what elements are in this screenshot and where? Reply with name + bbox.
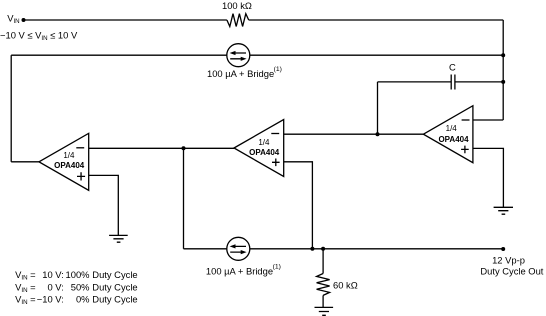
svg-text:VIN =: VIN = [15,269,36,282]
svg-text:Duty Cycle: Duty Cycle [92,293,137,304]
wire left feedback vertical x=11.2 [10,55,12,162]
op-amp U1A plus pin symbol [77,172,85,180]
junction dot cap-left node [376,132,380,136]
current source I1 arrowhead right [241,57,247,61]
svg-text:10 V:: 10 V: [42,269,64,280]
resistor R2 60k zigzag [317,274,330,296]
wire right opamp minus input [473,119,503,121]
junction dot R2 row3 [321,247,325,251]
svg-text:−10 V ≤ VIN ≤ 10 V: −10 V ≤ VIN ≤ 10 V [0,30,78,43]
svg-text:1/4: 1/4 [258,138,270,147]
op-amp U1A triangle [39,133,89,190]
svg-text:Duty Cycle Out: Duty Cycle Out [480,265,543,276]
svg-text:100%: 100% [66,269,90,280]
op-amp U1C minus pin symbol [462,119,470,121]
op-amp U1B minus pin symbol [271,133,279,135]
svg-text:(1): (1) [273,264,281,271]
svg-text:C: C [449,62,456,73]
op-amp U1A minus pin symbol [76,147,84,149]
current source I2 arrowhead left [230,244,236,248]
current source I2 circle [227,237,250,260]
current source I1 circle [227,44,250,67]
svg-text:0 V:: 0 V: [47,281,63,292]
current source I2 arrows [230,246,246,252]
svg-text:1/4: 1/4 [63,151,75,160]
resistor R1 zigzag [227,14,249,27]
junction dot right bus row2 [501,53,505,57]
svg-text:1/4: 1/4 [446,124,458,133]
wire row2 left segment [11,54,227,56]
wire cap-left vertical to node [377,82,379,134]
svg-text:VIN =: VIN = [15,293,36,306]
junction dot node A [182,146,186,150]
junction dot right bus cap [501,80,505,84]
wire U1A output [11,161,39,163]
wire 60k resistor top lead [322,249,324,274]
wire 60k resistor bottom lead [322,295,324,307]
wire right opamp plus input [473,148,504,207]
capacitor C right wire [455,81,503,83]
wire node A vertical x=183.5 [183,148,185,249]
svg-text:50%: 50% [71,281,90,292]
svg-text:VIN =: VIN = [15,281,36,294]
wire R1 to right bus [249,19,504,21]
op-amp U1C triangle [423,106,473,163]
svg-text:OPA404: OPA404 [438,135,469,144]
svg-text:100 µA + Bridge: 100 µA + Bridge [207,68,274,79]
ground G1 (U1A plus) [109,235,128,242]
wire VIN to R1 [24,19,227,21]
svg-text:OPA404: OPA404 [54,161,85,170]
node VIN terminal dot [22,18,26,22]
svg-text:Duty Cycle: Duty Cycle [92,281,137,292]
output terminal dot [501,247,505,251]
svg-text:0%: 0% [76,293,90,304]
wire U1B plus input [284,162,313,249]
current source I1 arrows [230,53,246,59]
svg-text:(1): (1) [274,66,282,73]
ground G2 (U1C plus) [494,207,513,214]
wire row3 left segment [184,248,227,250]
wire I1 to right bus [250,54,503,56]
svg-text:−10 V:: −10 V: [37,293,64,304]
svg-text:100 kΩ: 100 kΩ [222,0,252,11]
ground G3 (below R2) [315,307,334,315]
current source I1 arrowhead left [230,51,236,55]
svg-text:VIN: VIN [7,12,19,25]
svg-text:60 kΩ: 60 kΩ [333,279,358,290]
svg-text:OPA404: OPA404 [249,148,280,157]
capacitor C plates [451,75,455,90]
svg-text:12 Vp-p: 12 Vp-p [492,255,525,266]
op-amp U1B triangle [234,120,284,177]
capacitor C left wire [378,81,452,83]
wire U1A minus to U1B apex [89,147,234,149]
current source I2 arrowhead right [241,250,247,254]
wire right vertical bus x=503 [502,20,504,120]
svg-text:Duty Cycle: Duty Cycle [92,269,137,280]
wire U1B output to U1C apex [284,133,424,135]
wire U1A plus input [89,175,119,235]
svg-text:100 µA + Bridge: 100 µA + Bridge [206,266,273,277]
junction dot U1B plus row3 [310,247,314,251]
op-amp U1B plus pin symbol [272,159,280,167]
wire row3 right segment [250,248,503,250]
op-amp U1C plus pin symbol [461,146,469,154]
